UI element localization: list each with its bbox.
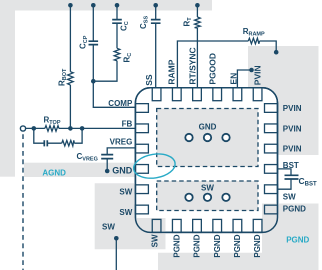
via 3 in SW pad [222,194,229,201]
pin PGND bottom3 [193,219,202,232]
svg-text:GND: GND [112,166,133,176]
AGND plane left column [0,0,15,177]
pin PVIN right3 [265,144,278,153]
node dot FB rbot [68,126,73,131]
node dot AGND CVREG [105,169,110,174]
svg-text:PVIN: PVIN [283,104,302,113]
svg-text:SW: SW [150,234,159,247]
pin SW bottom1 [152,219,161,232]
SW exposed pad [157,181,258,211]
svg-text:SS: SS [144,74,154,86]
resistor RT [195,17,201,28]
PGND plane [158,204,319,270]
svg-text:AGND: AGND [42,169,66,178]
wire FB net horizontal [26,127,136,129]
svg-text:PVIN: PVIN [283,124,302,133]
svg-text:SW: SW [119,188,132,197]
node VOUT open circle [20,126,25,131]
pin BST right4 [265,165,278,174]
svg-text:PGND: PGND [253,234,262,257]
svg-text:PGND: PGND [233,234,242,257]
wire VOUT sense dashed [22,134,24,270]
capacitor CBST [285,175,299,179]
svg-text:GND: GND [199,122,217,131]
pin SW left5 [135,185,148,194]
pin VREG left3 [135,144,148,153]
svg-text:PGND: PGND [286,235,309,244]
pin FB left2 [135,124,148,133]
svg-text:SW: SW [283,193,296,202]
wire VREG net [107,148,135,171]
capacitor CSS [151,20,161,24]
pin SW left6 [135,205,148,214]
wire C_C R_C branch [93,5,117,81]
op-amp U1 chip body [135,88,277,233]
svg-text:SW: SW [119,208,132,217]
node dot PVIN RRAMP [274,50,279,55]
via 3 in GND pad [222,134,229,141]
resistor RRAMP [248,38,259,44]
pin SW right5 [265,185,278,194]
highlight ellipse GND pin [132,151,177,181]
pin PGND bottom4 [213,219,222,232]
pin RAMP top2 [172,88,181,101]
wire SW plane to inductor [115,238,117,270]
resistor RTOP [45,126,59,132]
pin PGND bottom2 [172,219,181,232]
svg-text:PGND: PGND [172,234,181,257]
node dot AGND RBOT [68,3,73,8]
GND exposed pad [157,109,258,167]
pin SS top1 [152,88,161,101]
svg-text:PGND: PGND [193,234,202,257]
svg-text:PVIN: PVIN [253,65,263,85]
wire C_SS net [155,5,157,88]
svg-text:SW: SW [201,183,214,192]
wire BST net [278,169,292,189]
resistor feedforward [62,140,75,146]
node dot FB vout [32,126,37,131]
pin RT/SYNC top3 [193,88,202,101]
svg-text:PGOOD: PGOOD [208,53,218,85]
pin COMP left1 [135,104,148,113]
pin PVIN right1 [265,104,278,113]
pin PGND right6 [265,205,278,214]
wire R_BOT net vertical [69,5,71,128]
pin PGND bottom5 [233,219,242,232]
capacitor CCP [89,41,99,44]
wire R_T net [196,5,198,88]
via 2 in GND pad [204,134,211,141]
node dot AGND CCP [91,3,96,8]
svg-text:EN: EN [229,73,239,85]
via 1 in SW pad [185,194,192,201]
node dot COMP junction [91,79,96,84]
node dot AGND RT [195,3,200,8]
node dot FB ff [80,126,85,131]
svg-text:PGND: PGND [283,205,306,214]
via 2 in SW pad [204,194,211,201]
pin PGND bottom6 [253,219,262,232]
svg-text:FB: FB [122,120,133,129]
node dot AGND CC [115,3,120,8]
svg-text:COMP: COMP [108,99,133,108]
svg-text:PGND: PGND [213,234,222,257]
resistor RC [114,48,120,61]
pin GND left4 [135,165,148,174]
capacitor feedforward [44,140,47,146]
wire RAMP net [177,41,276,88]
wire C_CP net vertical [93,5,135,107]
resistor RBOT [68,72,74,85]
pin PVIN top6 [253,88,262,101]
pin PGOOD top4 [213,88,222,101]
svg-text:VREG: VREG [110,138,133,147]
pin EN top5 [233,88,242,101]
svg-text:RT/SYNC: RT/SYNC [187,47,197,84]
AGND plane top band [0,0,212,11]
pin PVIN right2 [265,124,278,133]
AGND plane lower band [24,163,136,177]
svg-text:SW: SW [102,222,115,231]
node dot PVIN EN [249,68,254,73]
U1 chip outline restroke [135,88,277,233]
wire feedforward branch [34,128,82,143]
svg-text:RAMP: RAMP [166,59,176,84]
wire EN net [237,70,251,88]
capacitor CVREG [101,155,113,159]
svg-text:BST: BST [283,161,299,170]
node dot SW plane [114,236,119,241]
capacitor CC [112,20,122,24]
via 1 in GND pad [185,134,192,141]
svg-text:PVIN: PVIN [283,145,302,154]
SW plane [95,183,166,249]
node dot AGND CSS [153,3,158,8]
PVIN plane [248,46,319,155]
